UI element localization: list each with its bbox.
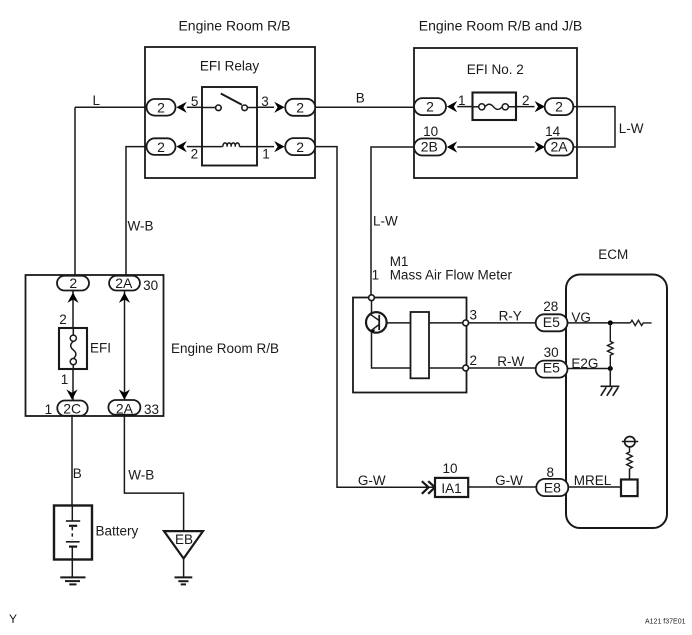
pin circle 1 M1 (369, 295, 375, 301)
ECM box (566, 275, 667, 529)
node junction E2G (608, 366, 613, 371)
wire VG row (568, 322, 631, 324)
resistor VG to E2G vertical (608, 323, 614, 369)
svg-text:G-W: G-W (358, 473, 386, 488)
svg-text:B: B (73, 466, 82, 481)
svg-text:2: 2 (59, 312, 67, 327)
svg-text:2A: 2A (115, 275, 133, 291)
svg-text:L: L (93, 93, 101, 108)
wire L-W loop right (573, 107, 615, 147)
svg-text:Battery: Battery (96, 524, 139, 539)
relay switch contact wire right (247, 107, 257, 109)
arrow 2A (535, 141, 545, 152)
svg-text:MREL: MREL (574, 473, 612, 488)
connector oval E8 (536, 479, 568, 496)
connector oval 2A (545, 138, 574, 155)
connector oval 2 relay pin5 (147, 99, 176, 116)
svg-text:28: 28 (543, 299, 558, 314)
svg-text:2: 2 (426, 98, 434, 114)
wire L horizontal (75, 106, 147, 108)
svg-text:G-W: G-W (495, 473, 523, 488)
arrow 2B (447, 141, 457, 152)
svg-text:E8: E8 (544, 479, 561, 495)
ground EB (175, 559, 193, 585)
svg-text:Engine Room R/B and J/B: Engine Room R/B and J/B (419, 17, 582, 33)
svg-text:EFI Relay: EFI Relay (200, 58, 260, 73)
resistor VG horizontal (630, 320, 651, 325)
svg-text:E5: E5 (543, 314, 560, 330)
wire W-B from relay (126, 147, 147, 276)
svg-text:14: 14 (545, 124, 561, 139)
svg-text:8: 8 (546, 465, 554, 480)
svg-text:1: 1 (372, 267, 380, 282)
transistor Q1 hot wire sensor (366, 312, 387, 333)
relay switch blade (221, 94, 242, 105)
relay coil L1 (223, 143, 240, 147)
svg-text:30: 30 (544, 345, 559, 360)
connector oval 2 relay pin3 (285, 99, 315, 116)
svg-text:1: 1 (61, 372, 69, 387)
wire fuse EFI vertical lower (72, 369, 74, 400)
relay switch contact right (242, 105, 248, 111)
wire L-W to mass air flow meter (371, 147, 414, 295)
svg-text:2: 2 (157, 99, 165, 115)
svg-text:2: 2 (69, 275, 77, 291)
connector oval 2C (57, 400, 87, 416)
relay U1 inner box (202, 87, 257, 166)
svg-text:10: 10 (442, 461, 457, 476)
arrow down right (119, 389, 130, 399)
svg-text:2: 2 (296, 139, 304, 155)
wire R-W (469, 367, 536, 369)
connector oval E5 28 (536, 314, 568, 332)
wire element to pin2 (429, 367, 463, 369)
pin circle 3 M1 (463, 320, 469, 326)
arrow down left (66, 389, 77, 399)
resistor MREL pullup (627, 447, 633, 469)
svg-text:EB: EB (175, 532, 193, 547)
wire fuse EFI vertical upper (72, 291, 74, 329)
svg-text:L-W: L-W (619, 121, 644, 136)
wire B relay to EFI No.2 (315, 106, 414, 108)
arrow relay pin2 (176, 141, 186, 152)
svg-text:W-B: W-B (128, 468, 154, 483)
wire transistor to element (387, 322, 411, 324)
arrow up left (67, 293, 78, 303)
wire E2G row (568, 368, 611, 370)
relay coil wire left (202, 146, 223, 148)
relay coil wire right (239, 146, 257, 148)
svg-text:1: 1 (45, 402, 53, 417)
connector oval 2 relay pin1 (285, 138, 315, 155)
wire relay pin5 arrow stub (187, 106, 202, 108)
arrow up right (119, 293, 130, 303)
svg-text:2A: 2A (116, 400, 134, 416)
wire relay pin2 arrow stub (187, 146, 202, 148)
svg-text:2: 2 (469, 353, 477, 368)
connector IA1 (435, 478, 468, 497)
connector oval 2A 30 (109, 275, 140, 291)
arrow fuse pin1 (447, 101, 457, 112)
wire relay pin1 stub (257, 146, 274, 148)
svg-text:Y: Y (9, 612, 17, 626)
sensing element rectangle (411, 312, 430, 378)
svg-text:2: 2 (296, 99, 304, 115)
connector oval 2 fuse left (414, 98, 446, 115)
arrow fuse pin2 (535, 101, 545, 112)
arrow relay pin5 (176, 102, 186, 113)
svg-text:3: 3 (469, 307, 477, 322)
wire relay pin3 stub (257, 106, 274, 108)
wire L vertical (74, 107, 76, 276)
svg-text:A121 f37E01: A121 f37E01 (645, 618, 686, 625)
wire W-B to EB (124, 415, 183, 531)
svg-text:33: 33 (144, 402, 159, 417)
svg-text:2: 2 (157, 139, 165, 155)
svg-text:ECM: ECM (598, 247, 628, 262)
svg-text:EFI No. 2: EFI No. 2 (467, 62, 524, 77)
wire 2B to 2A (457, 146, 534, 148)
svg-text:L-W: L-W (373, 214, 398, 229)
wire MREL row (568, 486, 621, 488)
svg-text:Engine Room R/B: Engine Room R/B (171, 341, 279, 356)
svg-text:R-W: R-W (497, 354, 524, 369)
relay block box Engine Room R/B (145, 47, 315, 178)
wire square to resistor (629, 469, 631, 480)
svg-text:E5: E5 (543, 360, 560, 376)
svg-text:1: 1 (262, 147, 270, 162)
svg-text:EFI: EFI (90, 340, 111, 355)
wire relay pin1 to G-W run (315, 147, 435, 488)
connector oval 2B (414, 138, 446, 155)
svg-text:W-B: W-B (128, 219, 154, 234)
ground point EB (164, 531, 203, 558)
connector oval 2 fuse right (545, 98, 574, 115)
svg-text:R-Y: R-Y (499, 308, 522, 323)
arrow relay pin1 (274, 141, 284, 152)
svg-text:10: 10 (423, 124, 438, 139)
wire G-W to E8 (468, 486, 536, 488)
connector oval 2A 33 (108, 400, 140, 416)
wire element to pin3 (429, 322, 463, 324)
wire 2A30 vertical (124, 291, 126, 401)
svg-text:2: 2 (191, 147, 199, 162)
svg-text:IA1: IA1 (441, 481, 461, 496)
connector oval 2 relay pin2 (147, 138, 176, 155)
fuse EFI (59, 328, 87, 369)
wire fuse right stub (516, 106, 535, 108)
battery (54, 506, 92, 560)
connector oval 2 top (57, 275, 89, 291)
wire transistor bottom path (372, 333, 411, 368)
connector oval E5 30 (536, 360, 568, 378)
svg-text:30: 30 (143, 278, 158, 293)
wire B to battery (71, 415, 73, 506)
wire pin1 to transistor (371, 301, 373, 314)
junction block box Engine Room R/B and J/B (414, 48, 577, 178)
svg-text:B: B (356, 90, 365, 105)
relay driver square MREL (621, 480, 638, 497)
block box Engine Room R/B lower (26, 275, 164, 416)
svg-text:2A: 2A (550, 138, 568, 154)
ground ECM internal (601, 369, 620, 396)
wire fuse left stub (457, 106, 472, 108)
arrow relay pin3 (274, 102, 284, 113)
svg-text:Engine Room R/B: Engine Room R/B (178, 17, 290, 33)
relay switch contact left (216, 105, 222, 111)
fuse EFI No.2 (473, 93, 517, 121)
svg-text:Mass Air Flow Meter: Mass Air Flow Meter (390, 267, 513, 282)
chevron G-W junction (422, 481, 435, 494)
svg-text:2C: 2C (63, 400, 81, 416)
mass air flow meter M1 box (353, 298, 467, 393)
ground battery (60, 560, 85, 585)
relay switch contact wire left (202, 107, 216, 109)
power symbol B+ (622, 437, 638, 447)
wire R-Y (469, 322, 536, 324)
svg-text:2: 2 (555, 98, 563, 114)
svg-text:2B: 2B (421, 138, 438, 154)
pin circle 2 M1 (463, 365, 469, 371)
node junction VG (608, 320, 613, 325)
